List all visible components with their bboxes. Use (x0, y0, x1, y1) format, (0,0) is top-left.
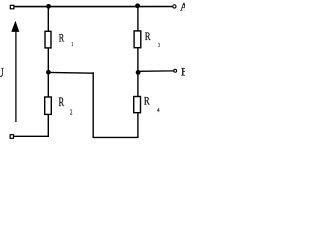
label R1 (59, 30, 73, 48)
resistor R2 (45, 97, 52, 114)
terminal bottom-left (10, 135, 13, 139)
node junction top-right (135, 3, 140, 8)
svg-text:R: R (59, 30, 64, 44)
terminal A (173, 5, 176, 8)
node junction mid-left (46, 70, 51, 75)
resistor R1 (45, 31, 51, 48)
svg-text:R: R (144, 94, 150, 108)
wire right branch bottom (137, 113, 139, 137)
terminal top-left (10, 5, 14, 9)
resistor R3 (134, 31, 141, 48)
resistor R4 (134, 97, 141, 113)
svg-text:U: U (0, 65, 4, 80)
wire right branch middle (137, 48, 139, 96)
wire to terminal B (138, 70, 174, 72)
label R2 (59, 95, 73, 116)
wire right branch top (137, 6, 139, 30)
voltage arrow U shaft (15, 30, 17, 123)
svg-text:R: R (145, 29, 151, 43)
wire top bus (14, 6, 173, 8)
svg-text:B: B (181, 65, 185, 79)
wire bottom middle (93, 136, 139, 138)
svg-text:1: 1 (71, 41, 73, 48)
svg-text:4: 4 (157, 107, 160, 114)
svg-text:3: 3 (158, 42, 160, 49)
wire middle horizontal (48, 71, 93, 74)
label R3 (145, 29, 160, 49)
label R4 (144, 94, 160, 115)
terminal B (174, 69, 177, 72)
svg-text:A: A (180, 0, 185, 14)
node junction top-left (46, 4, 51, 9)
svg-text:R: R (59, 95, 65, 109)
wire left branch bottom (14, 115, 49, 136)
wire middle vertical (92, 72, 94, 137)
wire left branch top (47, 7, 49, 32)
voltage arrow U head (11, 21, 19, 32)
node junction mid-right (136, 70, 141, 75)
wire left branch middle (47, 48, 49, 96)
svg-text:2: 2 (70, 107, 72, 116)
